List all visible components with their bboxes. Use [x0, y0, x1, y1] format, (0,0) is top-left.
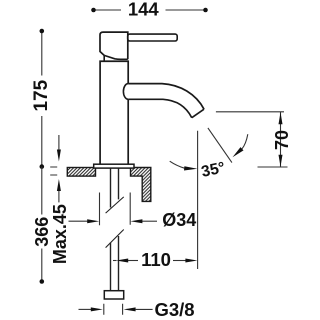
- 35-degree curved arrow: [242, 134, 248, 149]
- svg-text:70: 70: [272, 130, 292, 150]
- spout bottom edge: [128, 99, 192, 117]
- dimension 70 top extension line: [216, 111, 284, 113]
- countertop deck left (hatched): [67, 168, 95, 177]
- supply pipe upper segment: [111, 168, 119, 207]
- dimension G3/8 right arrow: [136, 308, 153, 310]
- dimension G3/8 left arrow: [79, 308, 92, 310]
- spout butt cap arc: [123, 84, 128, 100]
- spout outlet face: [192, 109, 204, 118]
- dimension 110 left arrow: [113, 260, 117, 262]
- svg-text:Max.45: Max.45: [50, 204, 70, 264]
- G3/8 end fitting: [104, 291, 123, 299]
- svg-text:175: 175: [31, 79, 52, 111]
- dimension Max.45 lower arrow: [58, 191, 60, 202]
- dimension Max.45 upper arrow: [58, 135, 60, 150]
- dimension 366 line: [41, 167, 43, 282]
- head bottom edge: [104, 55, 128, 59]
- faucet lever handle: [128, 34, 178, 41]
- dimension 366 bottom dot: [40, 279, 45, 284]
- svg-text:G3/8: G3/8: [154, 299, 194, 320]
- pipe break line 1: [106, 197, 124, 213]
- dimension G3/8 ticks: [104, 304, 123, 315]
- dimension 144 end dots: [91, 8, 96, 13]
- dimension O34 left arrow: [69, 220, 88, 222]
- dimension 110 right arrow: [173, 260, 186, 262]
- supply pipe lower segment: [111, 236, 119, 291]
- dimension O34 extension lines: [100, 193, 131, 226]
- base flange: [94, 164, 134, 168]
- countertop deck right (hatched L-shape): [131, 168, 151, 202]
- svg-text:Ø34: Ø34: [162, 210, 196, 230]
- 35-degree left arrow: [170, 161, 185, 168]
- pipe break line 2: [106, 230, 124, 248]
- dimension 70 line with arrows: [280, 112, 282, 167]
- outlet 35-degree reference line: [208, 128, 232, 163]
- head neck left line: [103, 55, 105, 61]
- faucet head (cartridge housing): [100, 32, 128, 59]
- faucet body column: [100, 61, 128, 164]
- svg-text:144: 144: [128, 0, 160, 19]
- dimension O34 right arrow: [142, 220, 157, 222]
- dimension 175 line: [41, 31, 43, 167]
- svg-text:110: 110: [141, 249, 171, 270]
- outlet vertical reference line: [197, 131, 199, 269]
- dimension 70 bottom extension line: [258, 166, 288, 168]
- dimension 144 line: [94, 9, 206, 11]
- dimension Max.45 surface dashes: [50, 167, 57, 175]
- dimension 175 end dots: [40, 29, 45, 34]
- spout top edge: [128, 84, 204, 110]
